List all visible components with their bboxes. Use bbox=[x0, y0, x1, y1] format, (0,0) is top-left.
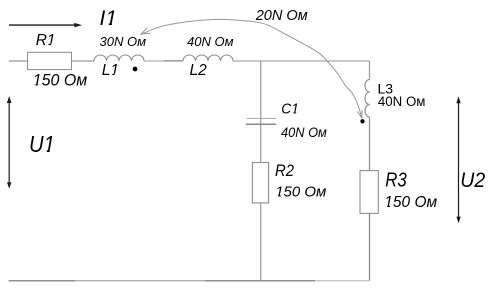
svg-text:L2: L2 bbox=[190, 62, 208, 79]
wire top-right corner down to L3 bbox=[369, 61, 371, 79]
voltage arrow U1 bbox=[7, 96, 12, 189]
svg-text:150 Ом: 150 Ом bbox=[33, 71, 87, 90]
svg-text:R1: R1 bbox=[36, 32, 56, 49]
svg-text:40N Ом: 40N Ом bbox=[378, 94, 426, 109]
wire L3 to R3 bbox=[369, 117, 371, 170]
polarity dot of L1 bbox=[133, 67, 138, 72]
svg-text:150 Ом: 150 Ом bbox=[384, 194, 437, 211]
node junction middle branch top bbox=[260, 61, 262, 118]
wire R1 to L1 bbox=[72, 60, 95, 62]
svg-text:20N Ом: 20N Ом bbox=[255, 8, 308, 24]
wire segment before L2 bbox=[164, 60, 183, 62]
svg-text:U1: U1 bbox=[29, 131, 55, 158]
svg-text:I1: I1 bbox=[100, 7, 118, 30]
inductor L2 bbox=[183, 55, 233, 61]
polarity dot of L3 bbox=[360, 119, 364, 123]
bottom wire segment 4 bbox=[315, 280, 370, 282]
resistor R3 bbox=[360, 171, 378, 214]
current arrow I1 bbox=[9, 23, 82, 27]
svg-text:R3: R3 bbox=[385, 168, 407, 191]
wire L2 to top-right corner bbox=[233, 60, 370, 62]
svg-text:30N Ом: 30N Ом bbox=[100, 34, 147, 49]
voltage arrow U2 bbox=[456, 96, 460, 223]
svg-text:L1: L1 bbox=[102, 62, 119, 79]
bottom wire segment 3 bbox=[205, 280, 315, 282]
svg-text:40N Ом: 40N Ом bbox=[281, 125, 327, 141]
inductor L3 bbox=[365, 79, 370, 117]
svg-text:C1: C1 bbox=[281, 101, 299, 118]
resistor R1 bbox=[28, 52, 72, 69]
wire C1 to R2 bbox=[260, 124, 262, 162]
mutual coupling arc M between L1 and L3 bbox=[141, 19, 362, 118]
svg-text:U2: U2 bbox=[460, 169, 485, 192]
inductor L1 bbox=[94, 55, 144, 61]
wire L1 to L2 bbox=[144, 60, 164, 62]
wire R2 to bottom bbox=[260, 203, 262, 281]
svg-text:R2: R2 bbox=[275, 162, 294, 180]
svg-text:150 Ом: 150 Ом bbox=[275, 184, 326, 201]
svg-text:40N Ом: 40N Ом bbox=[187, 34, 234, 49]
capacitor C1 bbox=[246, 118, 276, 124]
resistor R2 bbox=[252, 163, 268, 203]
wire top-left input terminal to R1 bbox=[9, 60, 28, 62]
wire R3 to bottom-right corner bbox=[369, 213, 371, 280]
bottom wire bbox=[9, 280, 75, 282]
bottom wire segment 2 bbox=[75, 280, 205, 282]
